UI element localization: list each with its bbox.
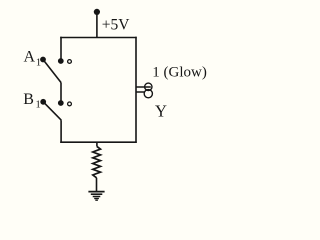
svg-text:1: 1 [36, 100, 41, 111]
wire left branch between switches [60, 83, 62, 104]
wire left branch upper segment [60, 37, 62, 61]
lamp Y lower turn [144, 90, 152, 98]
wire bottom rail [60, 141, 137, 143]
wire left branch lower segment [60, 120, 62, 143]
svg-text:A: A [24, 49, 36, 66]
lamp Y lead upper [136, 86, 151, 88]
switch A1 blade [43, 60, 61, 83]
node switch A1 fixed contact (closed) [58, 58, 64, 64]
svg-text:+5V: +5V [102, 16, 130, 33]
node +5V terminal dot [94, 9, 100, 15]
svg-text:1 (Glow): 1 (Glow) [152, 64, 207, 80]
lamp Y upper turn [145, 83, 152, 90]
node switch B1 pole [40, 99, 46, 105]
node switch B1 fixed contact (closed) [58, 100, 64, 106]
wire from resistor to ground [96, 178, 98, 192]
wire top rail [60, 37, 137, 39]
switch B1 blade [43, 102, 61, 120]
lamp Y lead lower [136, 91, 145, 93]
ground [88, 192, 104, 201]
svg-text:Y: Y [155, 102, 167, 121]
svg-text:1: 1 [36, 58, 41, 69]
resistor R [93, 147, 101, 178]
wire from +5V node down to top rail [96, 12, 98, 38]
node switch A1 pole [40, 57, 46, 63]
node switch B1 fixed contact (open) [68, 102, 72, 106]
wire right branch vertical [135, 37, 137, 143]
node switch A1 fixed contact (open) [68, 60, 72, 64]
wire from bottom rail to resistor [96, 142, 98, 146]
svg-text:B: B [23, 91, 34, 108]
